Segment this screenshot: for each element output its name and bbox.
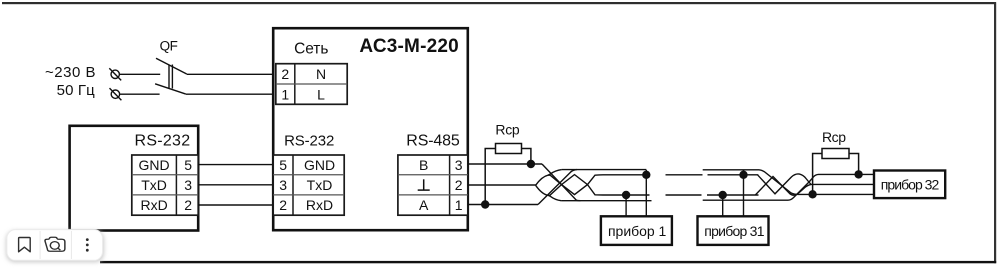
wire common from pin 2 [468, 184, 536, 186]
svg-text:1: 1 [455, 197, 463, 213]
svg-text:прибор 32: прибор 32 [881, 177, 940, 193]
terminal circle power L [109, 68, 121, 80]
svg-text:Rср: Rср [495, 122, 520, 138]
tap wire to прибор 1 (lower) [625, 195, 627, 216]
device box прибор 32 [874, 171, 945, 199]
wire A from pin 1 [468, 204, 538, 206]
junction: tap to прибор 31 (lower) [719, 191, 727, 199]
junction: tap to прибор 1 (lower) [622, 191, 630, 199]
svg-text:RS-232: RS-232 [135, 133, 191, 150]
wire: top power terminal to QF [120, 73, 161, 75]
converter U1 АС3-М-220 box [273, 28, 468, 230]
dots menu icon [86, 238, 89, 251]
svg-text:A: A [419, 197, 429, 213]
svg-text:L: L [317, 86, 325, 102]
svg-text:~230 В: ~230 В [45, 64, 96, 81]
wire: QF to Сеть pin 1 [186, 93, 274, 95]
tap wire to прибор 1 (upper) [645, 170, 647, 216]
svg-text:1: 1 [281, 86, 289, 102]
wire GND (5-5) [198, 164, 273, 166]
junction: Rcp right lead to wire A [808, 190, 816, 198]
device box прибор 31 [698, 216, 769, 245]
wire B diagonal down [542, 164, 581, 201]
svg-text:прибор 1: прибор 1 [608, 223, 667, 239]
junction: Rcp left lead to wire A [481, 200, 489, 208]
circuit breaker QF [155, 58, 187, 94]
common wire split upper branch to outer line [548, 170, 562, 176]
junction: tap to прибор 1 (upper) [642, 171, 650, 179]
tap wire to прибор 31 (upper) [743, 170, 745, 217]
terminal circle power N [110, 88, 122, 100]
resistor Rcp right termination [813, 149, 859, 195]
wire TxD (3-3) [198, 184, 273, 186]
wire pair upper [708, 174, 759, 176]
wire B diagonal up [788, 174, 873, 200]
resistor Rcp left termination [485, 144, 531, 205]
svg-text:RS-485: RS-485 [406, 133, 460, 150]
terminal block RS-232 (U1): 5GND 3TxD 2RxD [273, 155, 344, 215]
svg-text:B: B [419, 157, 428, 173]
bookmark icon [19, 238, 31, 252]
svg-text:2: 2 [455, 177, 463, 193]
svg-text:АС3-М-220: АС3-М-220 [359, 36, 458, 57]
svg-text:Сеть: Сеть [294, 41, 328, 58]
svg-text:2: 2 [184, 197, 192, 213]
twisted pair symbol (right) [755, 170, 873, 200]
svg-text:QF: QF [160, 39, 178, 54]
twist strand lower [755, 177, 811, 196]
twist strand upper [536, 175, 647, 195]
pin 2 common symbol ⊥ [418, 179, 430, 190]
terminal block RS-232 left: GND5 TxD3 RxD2 [132, 155, 198, 215]
viewer toolbar pill [6, 230, 104, 263]
common wire split lower branch to outer line [548, 195, 561, 200]
svg-text:3: 3 [279, 177, 287, 193]
svg-text:50 Гц: 50 Гц [57, 82, 96, 99]
svg-text:GND: GND [304, 157, 335, 173]
twist strand lower [536, 175, 650, 196]
wire RxD (2-2) [198, 204, 273, 206]
svg-text:Rср: Rср [822, 129, 846, 145]
svg-text:2: 2 [279, 197, 287, 213]
left device RS-232 box [70, 126, 199, 231]
junction: Rcp right lead to wire B [854, 170, 862, 178]
bus wires section 2 [703, 170, 788, 200]
wire A diagonal up [538, 170, 577, 205]
wire pair lower [707, 194, 759, 196]
outer upper line [562, 169, 647, 171]
outer lower line [561, 200, 651, 202]
svg-text:5: 5 [184, 157, 192, 173]
device box прибор 1 [601, 216, 672, 245]
twisted pair symbol (left) [536, 164, 652, 205]
tap wire to прибор 31 (lower) [722, 195, 724, 217]
wire B from pin 3 [468, 163, 542, 165]
svg-text:5: 5 [279, 157, 287, 173]
twist strand upper [758, 174, 874, 194]
svg-text:RxD: RxD [306, 197, 333, 213]
junction: tap to прибор 31 (upper) [739, 171, 747, 179]
svg-text:прибор 31: прибор 31 [704, 223, 764, 239]
svg-text:3: 3 [184, 177, 192, 193]
svg-text:TxD: TxD [307, 177, 333, 193]
power source label ~230 V 50 Hz [45, 64, 96, 99]
wire: bottom power terminal to QF [120, 93, 160, 95]
wire A diagonal down [759, 170, 873, 195]
junction: Rcp right lead to wire B [527, 160, 535, 168]
svg-text:GND: GND [139, 157, 170, 173]
lens icon [45, 237, 65, 251]
svg-text:TxD: TxD [141, 177, 167, 193]
terminal block RS-485: B3 ⊥2 A1 [398, 155, 468, 215]
cable break dashes [666, 175, 703, 195]
terminal block Сеть: pins 2/N 1/L [276, 64, 347, 105]
svg-text:3: 3 [455, 157, 463, 173]
svg-text:N: N [316, 66, 326, 82]
svg-text:2: 2 [281, 66, 289, 82]
wire A upper outer [703, 169, 759, 171]
wire B lower outer [703, 199, 788, 201]
wire: QF to Сеть pin 2 [187, 73, 274, 75]
svg-text:RS-232: RS-232 [284, 133, 334, 150]
svg-text:RxD: RxD [140, 197, 167, 213]
